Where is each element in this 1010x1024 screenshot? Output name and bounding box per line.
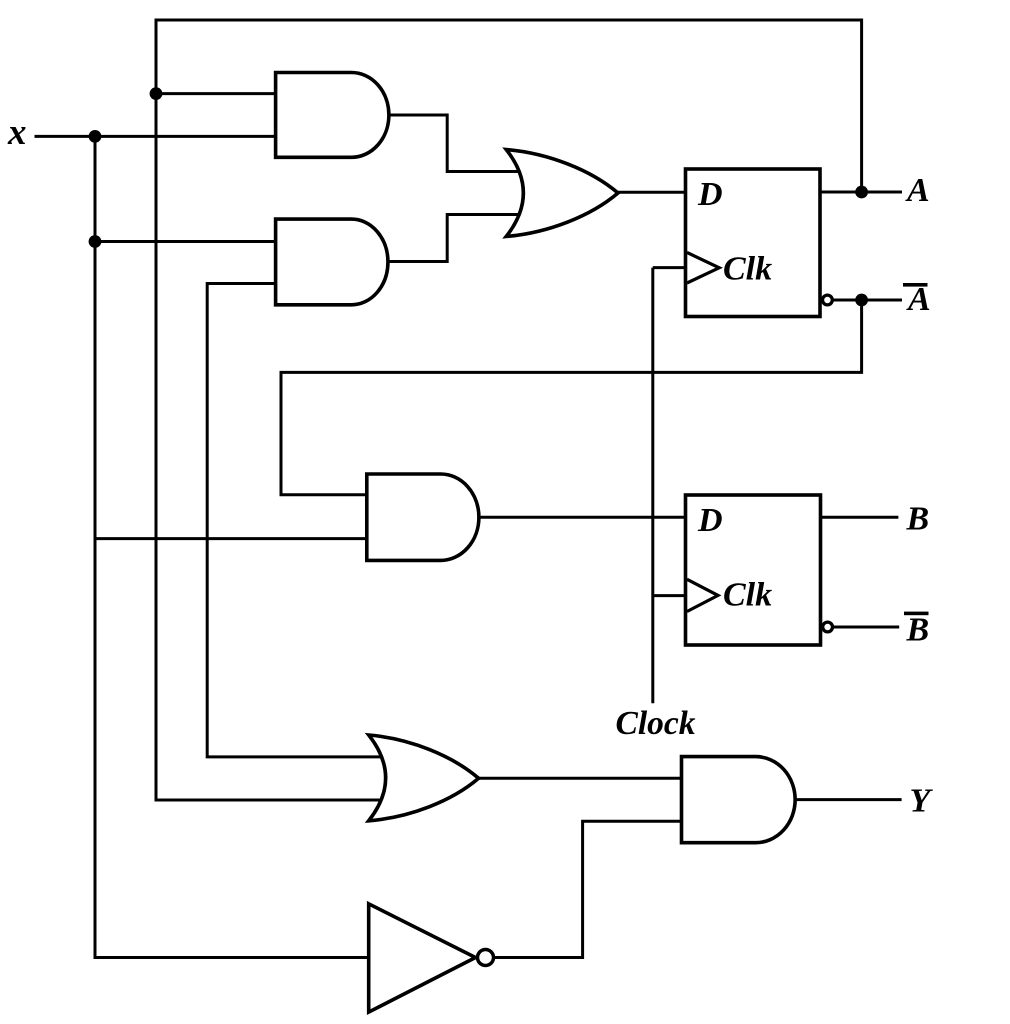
svg-text:B: B <box>906 501 930 538</box>
wire x input <box>35 135 278 138</box>
wire x vertical <box>95 136 370 957</box>
node dot A output <box>855 186 868 199</box>
FF1 clk triangle <box>687 253 719 284</box>
overline Bbar <box>904 612 929 616</box>
OR gate 2 <box>369 735 479 821</box>
flip-flop FF1 box <box>686 169 821 317</box>
wire clock vertical <box>651 268 654 704</box>
AND gate 1 <box>276 73 389 158</box>
wire net 207 AND2 to OR2 <box>207 284 386 757</box>
NOT output bubble <box>478 950 494 966</box>
wire FF2 Qbar to Bbar <box>827 626 899 629</box>
wire A branch to AND1 <box>156 92 277 95</box>
wire clock stub FF2 <box>653 594 687 597</box>
AND gate 4 <box>682 757 796 843</box>
AND gate 2 <box>276 219 388 305</box>
svg-text:x: x <box>7 112 27 153</box>
svg-text:D: D <box>697 176 723 213</box>
AND gate 3 <box>367 474 479 560</box>
svg-text:Clock: Clock <box>616 705 696 742</box>
flip-flop FF2 box <box>686 495 821 645</box>
wire Abar feedback to AND3 <box>281 300 862 495</box>
svg-text:Clk: Clk <box>723 577 772 614</box>
wire OR1 output to FF1 D <box>616 191 687 194</box>
OR gate 1 <box>506 150 618 237</box>
node dot x input <box>89 130 102 143</box>
FF2 clk triangle <box>687 579 718 611</box>
svg-text:D: D <box>697 502 723 539</box>
wire AND4 output to Y <box>794 798 902 801</box>
svg-text:Y: Y <box>910 783 934 820</box>
wire NOT output to AND4 <box>476 821 683 957</box>
svg-text:B: B <box>906 612 930 649</box>
wire FF1 Q to A <box>819 191 902 194</box>
svg-text:A: A <box>905 172 930 209</box>
wire AND1 output to OR1 <box>388 115 524 172</box>
FF1 Qbar bubble <box>823 295 833 305</box>
wire AND3 output to FF2 D <box>477 516 687 519</box>
wire OR2 output to AND4 <box>476 777 683 780</box>
wire FF1 Qbar to Abar <box>826 299 902 302</box>
wire clock stub FF1 <box>653 266 687 269</box>
wire x branch to AND3 <box>95 537 368 540</box>
overline Abar <box>903 283 928 287</box>
node dot A-AND1 <box>150 87 163 100</box>
node dot Abar output <box>855 294 868 307</box>
node dot x-AND2 <box>89 235 102 248</box>
wire AND2 output to OR1 <box>387 215 524 262</box>
wire top feedback A <box>156 20 862 800</box>
wire x branch to AND2 <box>95 240 277 243</box>
FF2 Qbar bubble <box>823 622 833 632</box>
NOT gate G1 <box>369 904 476 1012</box>
wire FF2 Q to B <box>820 516 899 519</box>
svg-text:Clk: Clk <box>723 251 772 288</box>
